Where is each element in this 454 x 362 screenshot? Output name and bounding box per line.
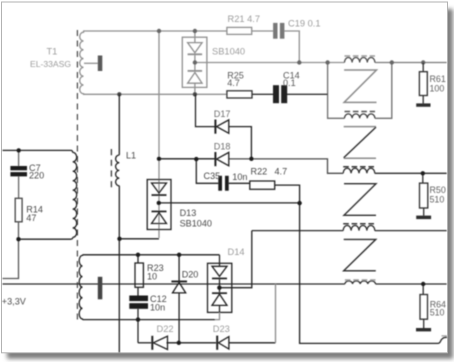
svg-text:10n: 10n	[150, 303, 165, 313]
svg-text:510: 510	[430, 308, 445, 318]
svg-text:47: 47	[26, 213, 36, 223]
svg-text:R50: R50	[430, 185, 446, 195]
svg-text:4.7: 4.7	[227, 78, 240, 88]
svg-text:D13: D13	[180, 208, 197, 218]
svg-text:D17: D17	[214, 109, 231, 119]
svg-text:4.7: 4.7	[275, 167, 288, 177]
svg-text:220: 220	[29, 170, 44, 180]
svg-text:C19 0.1: C19 0.1	[288, 19, 321, 29]
svg-text:SB1040: SB1040	[180, 219, 212, 229]
svg-text:510: 510	[430, 195, 445, 205]
svg-text:R21 4.7: R21 4.7	[228, 14, 261, 24]
svg-text:SB1040: SB1040	[212, 47, 245, 57]
svg-text:D22: D22	[157, 324, 174, 334]
svg-text:D14: D14	[228, 247, 245, 257]
svg-text:10n: 10n	[232, 172, 247, 182]
svg-text:C35: C35	[204, 171, 221, 181]
svg-text:10: 10	[147, 272, 157, 282]
svg-text:D18: D18	[214, 142, 231, 152]
svg-text:+3,3V: +3,3V	[2, 297, 27, 307]
svg-text:D23: D23	[213, 324, 230, 334]
svg-text:T1: T1	[47, 47, 58, 57]
svg-text:100: 100	[430, 84, 445, 94]
svg-text:0.1: 0.1	[283, 78, 296, 88]
svg-text:D20: D20	[182, 270, 199, 280]
svg-text:EL-33ASG: EL-33ASG	[30, 59, 71, 69]
svg-text:R22: R22	[251, 167, 268, 177]
svg-text:L1: L1	[126, 151, 136, 161]
svg-text:R61: R61	[430, 74, 446, 84]
